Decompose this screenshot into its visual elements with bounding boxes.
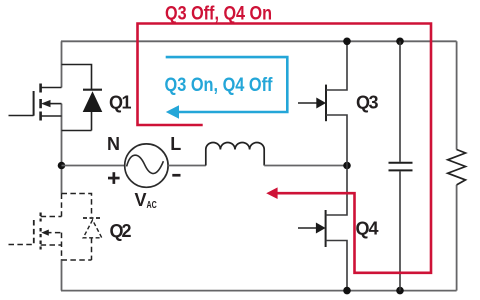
- svg-text:L: L: [170, 134, 181, 154]
- transistor Q4 channel bar: [325, 210, 327, 247]
- node bottom rail / capacitor junction dot: [396, 287, 404, 295]
- AC source VAC circle: [125, 144, 168, 187]
- transistor Q3 gate arrow: [316, 98, 326, 109]
- wire Q2 rail segment lower (dashed): [61, 233, 63, 260]
- capacitor C1 bottom lead: [399, 171, 401, 290]
- wire left rail bottom: [61, 260, 63, 291]
- transistor Q2 drain wire (dashed): [41, 216, 62, 218]
- transistor Q4 gate arrow: [316, 223, 326, 234]
- transistor Q4 gate lead: [298, 227, 317, 229]
- wire N node to AC source: [62, 165, 126, 167]
- transistor Q2 gate lead (dashed): [9, 244, 34, 246]
- transistor Q2 channel segments (dashed): [39, 213, 41, 250]
- svg-text:N: N: [107, 134, 120, 154]
- transistor Q1 source wire: [41, 115, 62, 117]
- transistor Q3 source: [326, 115, 347, 166]
- red arrowhead: [266, 187, 277, 199]
- cyan current path Q3 On, Q4 Off: [166, 57, 288, 112]
- wire left rail mid (body tie to N node): [61, 104, 63, 194]
- label plus sign: [108, 177, 120, 180]
- transistor Q1 channel segments: [39, 84, 42, 121]
- wire Q2 diode top stub (dashed): [62, 194, 92, 218]
- wire top rail: [61, 40, 457, 42]
- transistor Q1 gate bar: [33, 91, 35, 116]
- transistor Q3 gate lead: [298, 102, 318, 104]
- wire Q2 diode bottom stub (dashed): [62, 238, 92, 260]
- capacitor C1 plates: [389, 163, 413, 171]
- label minus sign: [172, 174, 180, 177]
- wire Q2 rail segment upper (dashed): [61, 194, 63, 217]
- svg-text:Q4: Q4: [356, 219, 379, 239]
- wire right load branch lower: [456, 185, 458, 291]
- node phase junction dot: [343, 162, 351, 170]
- node N junction dot: [58, 162, 66, 170]
- red current path Q3 Off, Q4 On: [138, 24, 432, 273]
- node top rail / Q3 drain junction dot: [343, 38, 351, 46]
- svg-text:Q2: Q2: [110, 221, 132, 241]
- wire AC source to inductor: [168, 165, 206, 167]
- svg-text:Q3 On, Q4 Off: Q3 On, Q4 Off: [165, 75, 274, 96]
- capacitor C1 top lead: [399, 41, 401, 162]
- transistor Q2 gate bar (dashed): [33, 220, 35, 245]
- transistor Q2 body arrow (dashed): [46, 232, 62, 234]
- node top rail / capacitor junction dot: [396, 38, 404, 46]
- svg-text:VAC: VAC: [135, 190, 158, 211]
- wire Q1 diode bottom stub: [62, 112, 92, 131]
- svg-text:Q3: Q3: [356, 93, 379, 113]
- wire left rail upper: [61, 41, 63, 87]
- svg-text:Q1: Q1: [109, 93, 132, 113]
- wire Q1 diode top stub: [62, 65, 92, 90]
- transistor Q3 channel bar: [325, 85, 327, 122]
- svg-text:Q3 Off, Q4 On: Q3 Off, Q4 On: [165, 3, 272, 24]
- diode D2 (Q2 body diode) cathode bar (dashed): [83, 217, 102, 219]
- transistor Q2 source wire (dashed): [41, 244, 62, 246]
- diode D2 triangle (dashed outline): [83, 220, 102, 238]
- inductor L1: [206, 143, 264, 166]
- diode D1 triangle: [83, 91, 103, 112]
- transistor Q1 body arrow: [46, 103, 62, 105]
- wire inductor to phase node: [264, 165, 347, 167]
- transistor Q1 drain wire: [41, 87, 62, 89]
- diode D1 (Q1 body diode) cathode bar: [83, 89, 102, 91]
- transistor Q4 source: [326, 241, 347, 291]
- AC source sine wave: [127, 155, 164, 173]
- transistor Q4 drain: [326, 166, 347, 216]
- transistor Q1 gate lead: [9, 115, 34, 117]
- wire bottom rail: [61, 290, 457, 292]
- node bottom rail / Q4 source junction dot: [343, 287, 351, 295]
- wire right load branch upper: [456, 41, 458, 149]
- cyan arrowhead: [166, 105, 179, 118]
- resistor load zigzag: [448, 150, 466, 185]
- transistor Q3 drain: [326, 41, 347, 90]
